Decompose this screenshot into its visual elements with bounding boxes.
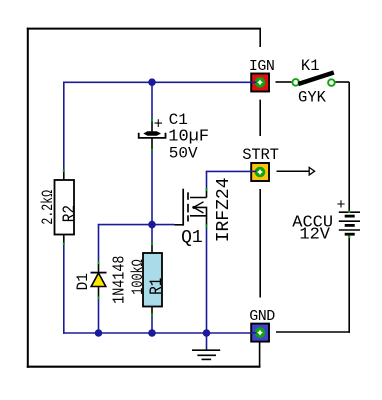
pin tick marks green [63,119,350,316]
wire R2 bottom pin [63,234,65,244]
wire outer loop left edge [27,28,29,368]
wire D1 top pin [98,263,100,274]
terminal GND square [251,324,269,342]
wire battery bottom to GND pin [276,331,350,333]
wire Q1 source pin [206,216,208,226]
wire stub IGN to STRT [259,100,261,136]
diode D1 triangle [91,273,106,287]
wire C1 bottom pin [151,139,153,151]
wire net D1 horizontal [98,224,152,226]
terminal STRT square [251,163,269,181]
transistor Q1 body diode arrow [194,202,204,213]
wire switch right to battery top corner [336,81,350,83]
wire net C1 top [151,82,153,120]
wire net R1 bottom [151,315,153,334]
junction node D1 bottom [95,329,103,337]
svg-text:K1: K1 [301,57,320,75]
diode D1 cathode bar [91,272,107,274]
wire outer loop bottom edge [27,366,261,368]
junction node at gate [148,221,156,229]
ground symbol [192,350,220,359]
wire net junction down to ground [206,333,208,350]
svg-text:+: + [336,197,345,214]
svg-text:IRFZ24: IRFZ24 [214,177,234,242]
wire net bottom horizontal [63,332,256,334]
wire C1 top pin [151,121,153,133]
svg-text:2.2kΩ: 2.2kΩ [39,190,57,225]
resistor R2 body [55,180,75,235]
wire D1 bottom pin [98,287,100,298]
wire net D1 top vertical [98,225,100,263]
wire net source down to bottom junction [206,226,208,334]
svg-text:Q1: Q1 [181,228,203,248]
terminal IGN contact circle [255,77,266,88]
wire outer loop stub from GND down [259,342,261,367]
switch K1 lever [298,73,334,85]
wire battery bottom vertical [348,235,350,333]
capacitor C1 bottom plate bracket [139,133,166,138]
svg-text:C1: C1 [169,111,188,129]
transistor Q1 channel dashes [187,192,189,221]
wire stub STRT to GND [259,189,261,298]
capacitor C1 top plate [143,131,161,135]
svg-text:+: + [154,115,163,133]
svg-text:12V: 12V [299,226,330,245]
svg-text:R2: R2 [59,205,80,222]
wire gate pin black [175,224,184,226]
wire net gate horizontal from junction [152,224,175,226]
svg-text:STRT: STRT [242,146,278,164]
transistor Q1 body lead with bulk connection [190,207,207,215]
wire IGN pin right to switch [276,81,292,83]
svg-text:50V: 50V [169,144,198,162]
svg-text:GYK: GYK [298,88,327,106]
wire outer loop right stub to IGN [259,29,261,48]
junction node R1 bottom [148,329,156,337]
terminal STRT contact circle [255,167,266,178]
transistor Q1 drain lead [190,197,207,199]
svg-text:R1: R1 [146,278,167,295]
junction node ground [203,329,211,337]
terminal IGN square [251,74,269,92]
svg-text:1N4148: 1N4148 [109,256,129,304]
wire net left vertical lower [63,244,65,334]
switch K1 right contact [328,79,335,86]
transistor Q1 gate bar [182,189,184,226]
svg-text:D1: D1 [73,273,92,290]
wire overlay into GND terminal [250,332,257,334]
wire net D1 bottom vertical [98,297,100,333]
wire net junction to R1 [151,225,153,244]
svg-text:IGN: IGN [249,58,275,75]
terminal GND contact circle [255,327,266,338]
wire R1 top pin [151,244,153,254]
resistor R1 body [143,253,162,307]
switch K1 left contact [292,79,299,86]
battery ACCU plates [339,212,360,234]
wire outer loop top edge [27,28,261,30]
svg-text:GND: GND [249,308,275,325]
wire overlay into STRT terminal [250,170,257,172]
wire R2 top pin [63,171,65,181]
wire overlay into IGN terminal [250,81,257,83]
wire net STRT down to drain [206,171,208,189]
wire battery top vertical [348,82,350,212]
wire Q1 drain pin [206,190,208,198]
wire net left vertical upper [63,82,65,170]
wire net STRT horizontal [206,170,256,172]
wire net top horizontal IGN-left [63,81,256,83]
arrow to starter [277,170,310,172]
junction node at C1 top [148,78,156,86]
wire net C1 bottom to gate junction [151,150,153,225]
wire R1 bottom pin [151,306,153,315]
